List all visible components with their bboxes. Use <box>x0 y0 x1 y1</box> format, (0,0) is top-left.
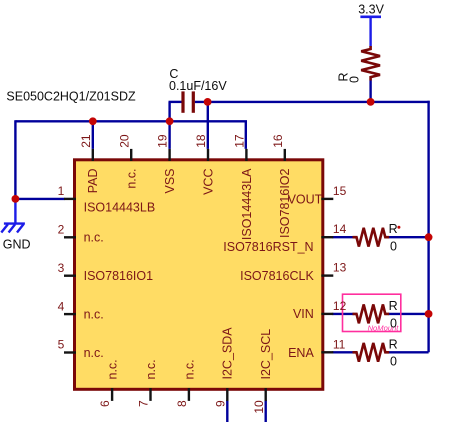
svg-text:VSS: VSS <box>163 169 177 194</box>
svg-text:ISO14443LA: ISO14443LA <box>240 168 254 240</box>
svg-text:n.c.: n.c. <box>106 359 120 379</box>
svg-text:I2C_SDA: I2C_SDA <box>221 327 235 380</box>
svg-text:8: 8 <box>175 400 189 407</box>
svg-text:0: 0 <box>347 76 361 83</box>
svg-text:19: 19 <box>156 134 170 148</box>
svg-text:18: 18 <box>194 134 208 148</box>
svg-text:3: 3 <box>58 261 65 275</box>
svg-text:I2C_SCL: I2C_SCL <box>259 329 273 380</box>
svg-text:20: 20 <box>117 134 131 148</box>
svg-text:6: 6 <box>98 400 112 407</box>
svg-text:R: R <box>389 222 398 236</box>
svg-text:PAD: PAD <box>86 169 100 194</box>
svg-text:ISO7816IO2: ISO7816IO2 <box>278 168 292 238</box>
svg-text:14: 14 <box>333 222 347 236</box>
svg-text:7: 7 <box>137 400 151 407</box>
svg-text:n.c.: n.c. <box>144 359 158 379</box>
svg-text:n.c.: n.c. <box>84 231 104 245</box>
svg-text:0.1uF/16V: 0.1uF/16V <box>169 79 227 93</box>
svg-text:n.c.: n.c. <box>84 346 104 360</box>
svg-text:1: 1 <box>58 184 65 198</box>
svg-text:16: 16 <box>271 134 285 148</box>
svg-text:n.c.: n.c. <box>182 359 196 379</box>
svg-text:VOUT: VOUT <box>288 192 323 206</box>
svg-text:0: 0 <box>390 240 397 254</box>
svg-text:0: 0 <box>390 316 397 330</box>
svg-text:10: 10 <box>252 400 266 414</box>
svg-text:ISO7816IO1: ISO7816IO1 <box>84 269 154 283</box>
svg-text:ENA: ENA <box>288 346 314 360</box>
svg-text:13: 13 <box>333 261 347 275</box>
svg-text:ISO7816CLK: ISO7816CLK <box>240 269 314 283</box>
svg-text:2: 2 <box>58 223 65 237</box>
svg-text:VCC: VCC <box>201 169 215 195</box>
svg-text:ISO14443LB: ISO14443LB <box>84 200 156 214</box>
svg-text:n.c.: n.c. <box>125 169 139 189</box>
svg-text:R: R <box>389 299 398 313</box>
svg-text:SE050C2HQ1/Z01SDZ: SE050C2HQ1/Z01SDZ <box>6 90 136 104</box>
svg-text:3.3V: 3.3V <box>358 3 384 17</box>
svg-text:n.c.: n.c. <box>84 308 104 322</box>
svg-text:GND: GND <box>3 237 31 251</box>
svg-text:11: 11 <box>333 337 346 351</box>
svg-text:VIN: VIN <box>293 307 314 321</box>
svg-text:ISO7816RST_N: ISO7816RST_N <box>223 240 313 254</box>
svg-text:R: R <box>389 337 398 351</box>
svg-text:4: 4 <box>58 299 65 313</box>
svg-text:15: 15 <box>333 184 347 198</box>
svg-text:17: 17 <box>233 134 247 148</box>
svg-text:21: 21 <box>79 134 93 148</box>
svg-text:9: 9 <box>213 400 227 407</box>
svg-text:12: 12 <box>333 299 347 313</box>
svg-text:0: 0 <box>390 355 397 369</box>
svg-text:5: 5 <box>58 338 65 352</box>
